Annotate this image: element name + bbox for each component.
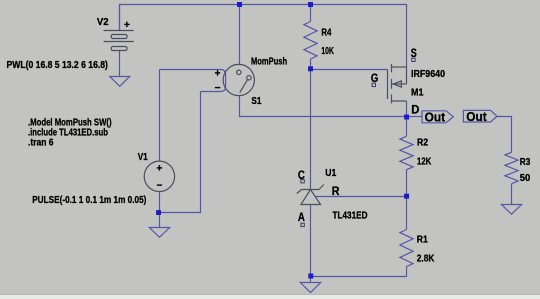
- ground below V1: [149, 228, 169, 238]
- svg-text:TL431ED: TL431ED: [333, 211, 368, 222]
- wire drain to node: [406, 101, 408, 117]
- pin marker G: [372, 83, 375, 86]
- wire V1 ground stub: [159, 213, 161, 228]
- node R4 bottom / gate: [308, 66, 313, 71]
- svg-text:PULSE(-0.1 1 0.1 1m 1m 0.05): PULSE(-0.1 1 0.1 1m 1m 0.05): [32, 195, 146, 206]
- junction nodes: [156, 2, 409, 279]
- wire R4 top lead: [310, 5, 312, 22]
- svg-text:Out: Out: [466, 110, 487, 124]
- ground below V2: [110, 77, 130, 87]
- pin marker S: [412, 58, 415, 61]
- wire switch bottom lead: [240, 96, 407, 117]
- TL431 U1: [297, 185, 324, 205]
- svg-text:G: G: [371, 71, 378, 85]
- svg-text:S1: S1: [251, 96, 261, 107]
- svg-text:C: C: [298, 168, 305, 182]
- wire V1 top lead: [159, 70, 161, 162]
- svg-text:A: A: [298, 210, 305, 224]
- wire Out flag2 to R3: [497, 117, 512, 153]
- wire R3 bottom lead: [511, 184, 513, 205]
- node TL431 anode / bottom rail: [308, 274, 313, 279]
- svg-text:V2: V2: [97, 17, 109, 28]
- wire R2 top lead: [406, 117, 408, 136]
- switch S1: [223, 64, 254, 95]
- node top rail / R4: [308, 2, 313, 7]
- svg-text:10K: 10K: [321, 46, 334, 57]
- resistor R2: [400, 136, 413, 169]
- node R ref: [404, 194, 409, 199]
- svg-text:S: S: [411, 46, 417, 60]
- Out flag 2: [463, 110, 497, 122]
- svg-text:R2: R2: [417, 138, 428, 149]
- wire TL431 ground stub: [310, 277, 312, 283]
- wire TL431 anode lead: [310, 205, 312, 277]
- pin marker A: [301, 223, 304, 226]
- svg-text:R3: R3: [520, 157, 531, 168]
- wire switch minus control down: [160, 92, 201, 213]
- wire V2 bottom lead to ground: [119, 51, 121, 77]
- resistor R1: [400, 230, 413, 267]
- node D: [404, 115, 409, 120]
- wire V2 top lead: [119, 5, 121, 31]
- node V1 minus: [156, 210, 161, 215]
- svg-text:−: −: [157, 180, 163, 191]
- wire node to Out flag: [407, 116, 423, 118]
- wire R4 bottom lead: [310, 59, 312, 70]
- svg-text:+: +: [124, 20, 130, 31]
- svg-text:+: +: [215, 69, 221, 80]
- voltage source V1: [144, 161, 174, 191]
- svg-text:−: −: [215, 83, 221, 94]
- svg-text:R: R: [332, 184, 340, 198]
- wire R1 bottom to bottom rail: [311, 267, 407, 277]
- svg-text:D: D: [411, 103, 419, 117]
- svg-text:R4: R4: [321, 27, 331, 38]
- svg-text:2.8K: 2.8K: [417, 254, 435, 265]
- svg-text:+: +: [157, 163, 163, 174]
- svg-text:U1: U1: [325, 168, 336, 179]
- Out flag 1: [422, 111, 453, 123]
- wire V1 bottom lead: [159, 191, 161, 212]
- svg-text:MomPush: MomPush: [251, 57, 287, 68]
- wire gate: [311, 69, 388, 71]
- svg-text:Out: Out: [425, 110, 446, 124]
- wire switch plus control from V1: [160, 70, 226, 92]
- wire TL431 ref to R2/R1 node: [315, 196, 407, 198]
- svg-text:.tran 6: .tran 6: [28, 137, 54, 148]
- svg-text:M1: M1: [411, 88, 424, 99]
- wire R2 bottom lead: [406, 170, 408, 197]
- resistor R3: [505, 152, 518, 183]
- svg-text:IRF9640: IRF9640: [411, 69, 445, 80]
- svg-text:PWL(0 16.8 5 13.2 6 16.8): PWL(0 16.8 5 13.2 6 16.8): [7, 60, 108, 71]
- resistor R4: [304, 22, 317, 60]
- pin marker C: [301, 180, 304, 183]
- svg-text:V1: V1: [138, 152, 148, 163]
- ground below R3: [502, 205, 522, 215]
- svg-text:12K: 12K: [417, 157, 432, 168]
- wire switch top lead: [239, 5, 241, 65]
- battery V2: [104, 31, 134, 51]
- wire R1 top lead: [406, 197, 408, 230]
- svg-text:50: 50: [520, 173, 531, 184]
- node top rail / switch: [237, 2, 242, 7]
- pmos M1: [388, 64, 407, 103]
- svg-text:R1: R1: [417, 235, 428, 246]
- ground below TL431: [300, 283, 320, 293]
- wire R4 node to TL431 cathode: [310, 70, 312, 190]
- wire top rail: [120, 5, 407, 68]
